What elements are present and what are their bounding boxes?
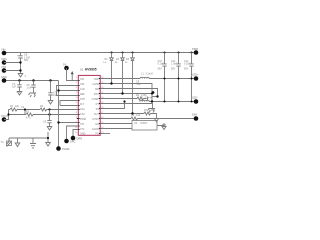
svg-text:FLT: FLT [80,103,85,106]
svg-text:5V: 5V [63,63,66,67]
svg-text:GATE: GATE [92,83,99,86]
svg-text:COMP: COMP [92,98,100,101]
svg-text:XT2: XT2 [80,128,85,131]
svg-text:U1: U1 [80,68,84,72]
svg-text:VIN: VIN [80,78,84,81]
svg-text:BST: BST [94,93,99,96]
svg-text:GND: GND [80,133,86,136]
svg-text:0.1uF: 0.1uF [158,62,165,65]
svg-text:DRN: DRN [77,137,83,141]
svg-text:2.2mH: 2.2mH [146,73,153,76]
svg-text:REF: REF [80,93,85,96]
svg-text:AGND: AGND [92,128,99,131]
svg-text:OVP: OVP [80,98,85,101]
svg-text:CS1: CS1 [80,108,85,111]
svg-text:VO617: VO617 [140,122,148,125]
svg-text:4.7k: 4.7k [26,117,31,120]
svg-text:PWM: PWM [80,118,86,121]
svg-text:50V: 50V [184,68,189,71]
svg-text:HV9805: HV9805 [85,68,97,72]
svg-text:1uF: 1uF [12,86,17,89]
svg-text:VDD: VDD [1,57,7,61]
svg-text:1.0uF: 1.0uF [171,62,178,65]
svg-text:OUT: OUT [94,113,100,116]
svg-text:50V: 50V [158,68,163,71]
svg-text:LED+: LED+ [192,73,199,77]
svg-text:PG: PG [95,133,99,136]
svg-text:RT: RT [96,103,100,106]
svg-text:CPL: CPL [80,83,85,86]
svg-text:50V: 50V [24,59,29,62]
svg-text:GND: GND [1,75,7,79]
svg-text:DIM: DIM [192,113,197,117]
svg-text:.1uF: .1uF [136,83,141,86]
svg-text:2.0M: 2.0M [149,109,154,112]
svg-text:2.2mH: 2.2mH [145,96,152,99]
svg-text:0.1uF: 0.1uF [184,62,191,65]
svg-text:1.0k: 1.0k [136,114,141,117]
svg-text:EN: EN [95,123,99,126]
svg-text:CS2: CS2 [80,113,85,116]
svg-text:LED-: LED- [192,96,198,100]
svg-text:PWR: PWR [192,47,198,51]
svg-text:PGND: PGND [62,147,70,151]
svg-text:Y1: Y1 [1,140,5,144]
svg-text:SS: SS [96,108,100,111]
svg-text:.1uF: .1uF [27,87,32,90]
svg-text:VDD: VDD [94,78,99,81]
svg-text:SYNC: SYNC [92,118,99,121]
svg-text:CLD: CLD [80,88,85,91]
svg-text:VIN: VIN [1,48,5,52]
svg-text:50V: 50V [171,68,176,71]
svg-text:XT1: XT1 [80,123,85,126]
svg-text:VSS: VSS [1,65,6,69]
